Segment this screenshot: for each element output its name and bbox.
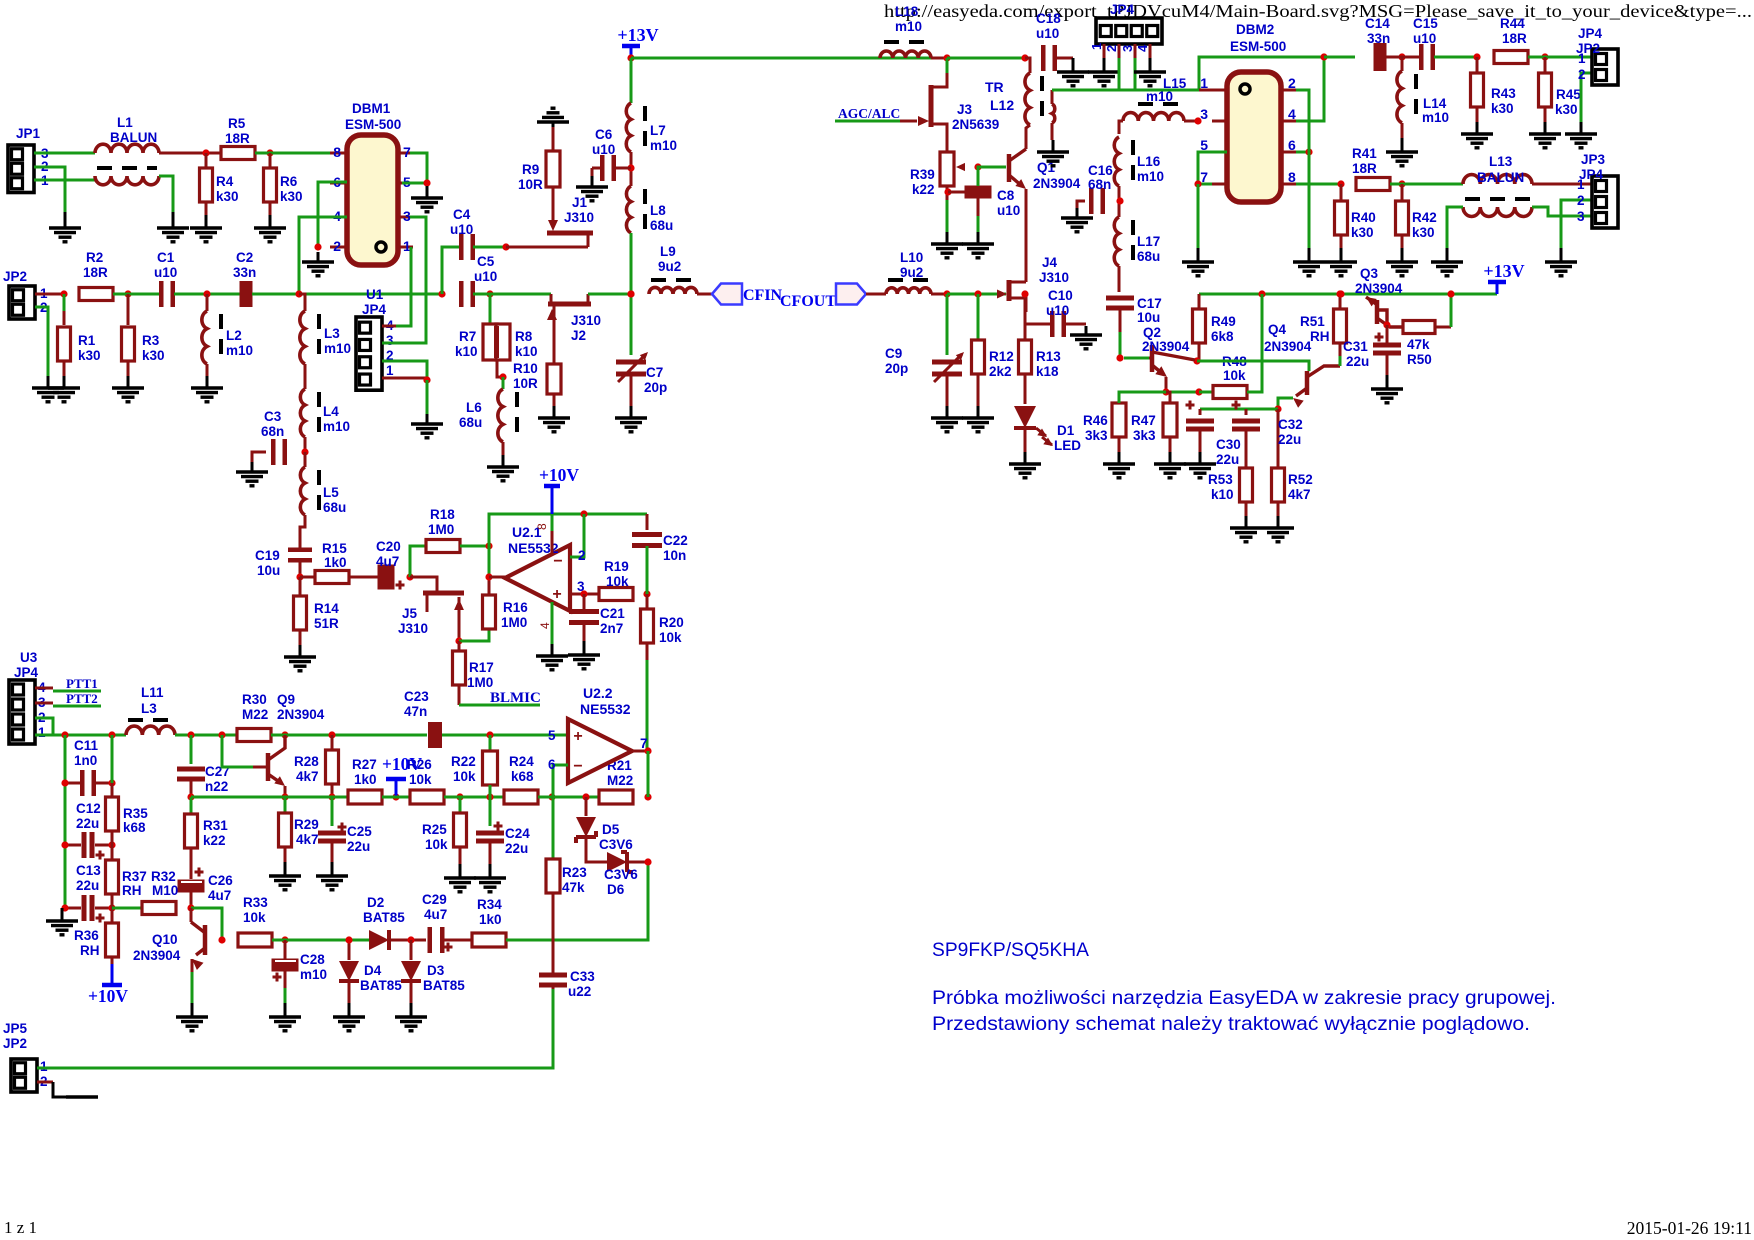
junction C8 left xyxy=(944,188,951,195)
resistor R52 xyxy=(1272,409,1313,516)
svg-text:22u: 22u xyxy=(76,816,99,831)
wire L15 to DBM2 pin3 xyxy=(1184,120,1198,123)
wire L5 to C19 xyxy=(300,515,305,548)
svg-text:J3: J3 xyxy=(957,102,973,117)
svg-text:k22: k22 xyxy=(203,833,226,848)
wire R39 bottom xyxy=(946,200,949,232)
wire C4 to J1 xyxy=(473,246,506,249)
svg-text:U2.2: U2.2 xyxy=(583,685,613,701)
junction C12 right xyxy=(108,841,115,848)
DBM2 pin stubs 3/4 xyxy=(1200,106,1296,122)
resistor R41 xyxy=(1352,146,1390,191)
svg-text:C16: C16 xyxy=(1088,163,1113,178)
svg-text:R5: R5 xyxy=(228,116,246,131)
title SP9FKP/SQ5KHA xyxy=(932,939,1089,961)
svg-text:BLMIC: BLMIC xyxy=(490,690,541,706)
U2.2 pin7 xyxy=(640,736,648,751)
svg-text:D5: D5 xyxy=(602,822,620,837)
svg-text:k30: k30 xyxy=(142,348,165,363)
wire R48 right up rail xyxy=(1247,294,1262,392)
svg-text:CFOUT: CFOUT xyxy=(780,293,836,310)
junction C18 xyxy=(1021,54,1028,61)
wire C10 right to ground xyxy=(1065,323,1086,326)
svg-text:1: 1 xyxy=(1089,43,1104,50)
ground C31 xyxy=(1371,375,1403,403)
svg-text:LED: LED xyxy=(1054,438,1081,453)
svg-text:2N3904: 2N3904 xyxy=(1355,281,1403,296)
junction R22 top xyxy=(486,731,493,738)
svg-text:22u: 22u xyxy=(1346,354,1369,369)
wire R32 link xyxy=(112,907,142,910)
svg-text:J310: J310 xyxy=(564,210,594,225)
inductor L11 L3 xyxy=(126,685,175,735)
JP3 pin2 xyxy=(1577,193,1585,208)
wire L7 to L8 xyxy=(630,152,633,186)
wire R8 bottom xyxy=(497,360,503,377)
resistor R42 xyxy=(1396,184,1437,248)
transistor Q1 2N3904 xyxy=(1009,149,1081,191)
svg-text:+13V: +13V xyxy=(617,25,658,45)
svg-text:68u: 68u xyxy=(459,415,482,430)
capacitor C17 xyxy=(1106,296,1162,326)
resistor R15 xyxy=(300,541,379,584)
capacitor C22 xyxy=(632,514,688,594)
resistor R40 xyxy=(1335,184,1376,248)
jfet J3 2N5639 xyxy=(918,73,999,139)
junction C4/J1 xyxy=(502,243,509,250)
wire R28 to R27 xyxy=(285,796,348,799)
svg-text:C14: C14 xyxy=(1365,16,1390,31)
svg-text:1: 1 xyxy=(38,725,46,740)
svg-text:DBM1: DBM1 xyxy=(352,101,391,116)
svg-text:R47: R47 xyxy=(1131,413,1156,428)
ground R47 xyxy=(1154,452,1186,478)
svg-text:R26: R26 xyxy=(407,757,432,772)
wire opamp pin3 xyxy=(570,593,600,596)
op-amp U2.1 NE5532 xyxy=(505,523,570,629)
svg-text:R19: R19 xyxy=(604,559,629,574)
svg-text:L7: L7 xyxy=(650,123,666,138)
wire J5 node to R16 bottom xyxy=(459,630,489,641)
resistor R9 xyxy=(518,127,560,222)
svg-text:C22: C22 xyxy=(663,533,688,548)
JP2r pin1 xyxy=(1578,51,1586,66)
ground C10 xyxy=(1070,326,1102,349)
resistor R47 xyxy=(1131,392,1177,452)
svg-text:u10: u10 xyxy=(1036,26,1059,41)
svg-text:33n: 33n xyxy=(1367,31,1390,46)
svg-text:C25: C25 xyxy=(347,824,372,839)
net label BLMIC xyxy=(459,690,541,706)
wire R5 right to DBM1 pin8 xyxy=(255,152,330,155)
svg-text:+: + xyxy=(573,728,582,745)
JP3 pin3 xyxy=(1577,209,1585,224)
JP2 pin 2 xyxy=(40,300,48,315)
svg-text:R6: R6 xyxy=(280,174,298,189)
svg-text:L10: L10 xyxy=(900,250,923,265)
svg-text:J310: J310 xyxy=(571,313,601,328)
resistor R22 xyxy=(451,735,498,797)
ground R25 xyxy=(444,864,476,892)
svg-text:R28: R28 xyxy=(294,754,319,769)
svg-text:C6: C6 xyxy=(595,127,613,142)
junction JP4 pin1 xyxy=(423,376,430,383)
ground C24 xyxy=(474,864,506,892)
junction DBM1 pin4 bottom xyxy=(295,290,302,297)
svg-text:R42: R42 xyxy=(1412,210,1437,225)
svg-text:C3: C3 xyxy=(264,409,282,424)
wire R49 top lead xyxy=(1198,294,1201,309)
wire C15 to R44 xyxy=(1434,56,1477,59)
inductor L14 xyxy=(1397,57,1449,138)
svg-text:1 z 1: 1 z 1 xyxy=(4,1218,37,1237)
inductor L5 xyxy=(300,452,346,515)
U2.2 pin6 xyxy=(548,757,556,772)
resistor R2 xyxy=(79,250,113,301)
ground R3 xyxy=(112,376,144,402)
svg-text:k10: k10 xyxy=(455,344,478,359)
power +10V y797 xyxy=(382,754,422,797)
svg-text:10k: 10k xyxy=(606,574,629,589)
svg-text:68u: 68u xyxy=(323,500,346,515)
svg-text:3: 3 xyxy=(1577,209,1585,224)
ground L13 xyxy=(1431,248,1463,276)
transistor Q9 2N3904 xyxy=(222,692,325,797)
svg-text:u10: u10 xyxy=(154,265,177,280)
wire Q1 emitter down xyxy=(1025,189,1028,282)
ground D4 xyxy=(333,1003,365,1031)
wire opamp pin8 into chip xyxy=(551,531,554,553)
junction Q3 left xyxy=(1337,290,1344,297)
svg-text:L3: L3 xyxy=(141,701,157,716)
svg-text:R1: R1 xyxy=(78,333,96,348)
wire DBM1 pin4 down to main line xyxy=(299,217,347,294)
svg-text:C32: C32 xyxy=(1278,417,1303,432)
transformer TR L12 xyxy=(985,58,1055,140)
svg-text:RH: RH xyxy=(80,943,100,958)
svg-text:NE5532: NE5532 xyxy=(580,701,631,717)
wire DBM2 pin6 node xyxy=(1296,151,1309,154)
svg-text:C26: C26 xyxy=(208,873,233,888)
zener D6 C3V6 xyxy=(604,852,648,897)
ground C13 rail xyxy=(46,908,78,935)
wire C17 green to base xyxy=(1119,332,1122,358)
resistor R34 xyxy=(472,897,506,947)
svg-text:Q3: Q3 xyxy=(1360,266,1379,281)
inductor L3 xyxy=(299,294,351,364)
svg-text:R17: R17 xyxy=(469,660,494,675)
svg-text:R20: R20 xyxy=(659,615,684,630)
svg-text:2N3904: 2N3904 xyxy=(1264,339,1312,354)
JP5 pin1 xyxy=(40,1059,48,1074)
junction L2 top xyxy=(203,290,210,297)
ground L2 xyxy=(191,376,223,402)
svg-text:AGC/ALC: AGC/ALC xyxy=(838,106,900,121)
wire output to apex xyxy=(489,576,505,579)
wire DBM2 pin1 stub long xyxy=(1199,89,1212,92)
svg-text:1: 1 xyxy=(386,363,394,378)
resistor R26 xyxy=(407,757,444,804)
resistor R1 xyxy=(58,294,101,376)
svg-text:R12: R12 xyxy=(989,349,1014,364)
inductor L9 xyxy=(649,244,697,294)
svg-text:J4: J4 xyxy=(1042,255,1058,270)
JP2r pin2 xyxy=(1578,67,1586,82)
ground C6 xyxy=(576,176,608,201)
svg-text:u10: u10 xyxy=(1413,31,1436,46)
resistor R36 xyxy=(74,908,119,964)
JP4 top pin stubs xyxy=(1089,43,1150,58)
svg-text:3: 3 xyxy=(403,208,411,224)
net label PTT2 xyxy=(35,691,101,706)
wire JP2 pin1 stub xyxy=(35,293,64,296)
svg-text:1: 1 xyxy=(1577,177,1585,192)
ground R45 xyxy=(1529,122,1561,148)
svg-text:4: 4 xyxy=(1135,44,1150,52)
ground R40 xyxy=(1325,248,1357,276)
svg-text:22u: 22u xyxy=(1278,432,1301,447)
svg-text:10k: 10k xyxy=(409,772,432,787)
ground R52 xyxy=(1262,516,1294,542)
svg-text:PTT2: PTT2 xyxy=(66,691,98,706)
ground R14 xyxy=(284,645,316,671)
svg-text:R7: R7 xyxy=(459,329,476,344)
resistor R33 xyxy=(238,895,272,947)
svg-text:3: 3 xyxy=(1200,106,1208,122)
wire C23 to U2.2 pin5 xyxy=(442,734,568,737)
svg-text:J310: J310 xyxy=(1039,270,1069,285)
svg-text:Przedstawiony schemat należy t: Przedstawiony schemat należy traktować w… xyxy=(932,1013,1530,1035)
ground JP3 pin2 xyxy=(1545,248,1577,276)
junction C16 node xyxy=(1116,197,1123,204)
svg-text:http://easyeda.com/export_tPJD: http://easyeda.com/export_tPJDVcuM4/Main… xyxy=(884,1,1752,21)
wire JP4 pin2 xyxy=(382,361,427,378)
resistor R31 xyxy=(185,797,229,862)
capacitor C6 xyxy=(592,127,631,181)
svg-text:R18: R18 xyxy=(430,507,455,522)
junction R22 bottom xyxy=(486,793,493,800)
svg-text:k30: k30 xyxy=(1351,225,1374,240)
svg-text:m10: m10 xyxy=(650,138,677,153)
svg-text:C5: C5 xyxy=(477,254,495,269)
ground R53 xyxy=(1230,516,1262,542)
net label AGC/ALC xyxy=(835,106,900,121)
wire R2 to C1 xyxy=(113,293,160,296)
svg-text:JP4: JP4 xyxy=(1578,26,1603,41)
wire L13 bottom to JP3 pin3 xyxy=(1532,207,1592,216)
wire R26 to R24 xyxy=(444,796,504,799)
ground L14 xyxy=(1386,138,1418,166)
svg-text:JP2: JP2 xyxy=(3,269,27,284)
wire R51 bottom to Q4 collector xyxy=(1339,356,1342,366)
svg-text:R41: R41 xyxy=(1352,146,1377,161)
ground DBM1 pin5 xyxy=(411,186,443,212)
svg-text:R37: R37 xyxy=(122,869,147,884)
svg-text:m10: m10 xyxy=(1146,89,1173,104)
junction R41 left xyxy=(1337,180,1344,187)
wire cap rail xyxy=(1200,408,1278,411)
DBM1 pin stubs row 4/3 xyxy=(330,208,413,224)
inductor L17 xyxy=(1114,217,1160,266)
svg-text:R23: R23 xyxy=(562,865,587,880)
svg-text:L17: L17 xyxy=(1137,234,1160,249)
svg-text:2N3904: 2N3904 xyxy=(1033,176,1081,191)
power +10V U2.1 xyxy=(539,465,579,514)
svg-text:U3: U3 xyxy=(20,650,38,665)
svg-text:m10: m10 xyxy=(226,343,253,358)
svg-text:R40: R40 xyxy=(1351,210,1376,225)
svg-text:4u7: 4u7 xyxy=(376,554,399,569)
ground C9 xyxy=(931,406,963,432)
wire rail to C18 xyxy=(947,57,1025,60)
svg-text:L4: L4 xyxy=(323,404,339,419)
wire JP1 pin3 to L1 xyxy=(34,152,95,155)
svg-text:68u: 68u xyxy=(650,218,673,233)
wire top rail to C14 xyxy=(1324,56,1355,59)
ground JP2 pin2 xyxy=(32,376,64,402)
capacitor C5 xyxy=(459,254,497,307)
note line 1 xyxy=(932,987,1556,1009)
wire DBM2 pin5 to pin7 xyxy=(1198,152,1227,184)
svg-text:4k7: 4k7 xyxy=(1288,487,1311,502)
U2.2 pin5 xyxy=(548,728,556,743)
svg-text:51R: 51R xyxy=(314,616,339,631)
capacitor C3 xyxy=(261,409,287,465)
wire R24 to R21 xyxy=(538,796,600,799)
resistor R50 xyxy=(1403,321,1451,368)
page header url text xyxy=(884,1,1752,21)
junction rail R51 xyxy=(1336,290,1343,297)
svg-text:DBM2: DBM2 xyxy=(1236,22,1274,37)
svg-text:R25: R25 xyxy=(422,822,447,837)
U3 pin3 xyxy=(38,695,46,710)
op-amp U2.2 NE5532 xyxy=(568,685,632,783)
svg-text:Q2: Q2 xyxy=(1143,325,1161,340)
wire C5 to J2 xyxy=(473,293,551,296)
resistor R5 xyxy=(221,116,255,160)
capacitor C28 xyxy=(272,940,328,1003)
svg-text:3: 3 xyxy=(1120,45,1135,52)
svg-text:10k: 10k xyxy=(453,769,476,784)
svg-text:C17: C17 xyxy=(1137,296,1162,311)
pin 3 label xyxy=(577,579,585,594)
svg-text:R4: R4 xyxy=(216,174,234,189)
svg-text:k30: k30 xyxy=(1491,101,1514,116)
diode D4 BAT85 xyxy=(339,940,402,1003)
resistor R45 xyxy=(1539,57,1582,122)
wire U3 pin1 main line xyxy=(35,734,126,737)
svg-text:C18: C18 xyxy=(1036,11,1061,26)
resistor R19 xyxy=(599,559,633,601)
power +10V R36 xyxy=(88,964,128,1006)
ground JP4 pin1 xyxy=(1088,58,1120,86)
junction Q2 emitter node xyxy=(1162,388,1169,395)
ground C18 xyxy=(1057,58,1089,86)
resistor R39 xyxy=(910,139,965,200)
wire C18 right to ground xyxy=(1056,57,1073,60)
ground L6 xyxy=(487,455,519,481)
svg-text:2N3904: 2N3904 xyxy=(1142,339,1190,354)
svg-text:C8: C8 xyxy=(997,188,1015,203)
svg-text:10u: 10u xyxy=(257,563,280,578)
wire opamp pin2 xyxy=(570,514,584,557)
junction R12 xyxy=(974,290,981,297)
wire DBM1 pin3 down xyxy=(410,217,426,294)
ground C30 xyxy=(1184,452,1216,478)
wire L13 bottom left xyxy=(1447,207,1463,248)
diode D1 LED xyxy=(1014,406,1081,453)
resistor R44 xyxy=(1494,16,1528,64)
U1 JP4 pin3 xyxy=(386,333,394,348)
svg-text:JP4: JP4 xyxy=(362,302,387,317)
svg-text:R34: R34 xyxy=(477,897,502,912)
svg-text:m10: m10 xyxy=(895,19,922,34)
junction C12 left xyxy=(61,841,68,848)
connector JP4 top xyxy=(1096,2,1162,44)
svg-text:2k2: 2k2 xyxy=(989,364,1012,379)
svg-text:Q9: Q9 xyxy=(277,692,295,707)
capacitor C32 xyxy=(1216,401,1260,468)
junction R48 left xyxy=(1195,388,1202,395)
svg-text:2N3904: 2N3904 xyxy=(277,707,325,722)
wire L18 to junction xyxy=(931,57,947,60)
ground R4 xyxy=(190,215,222,242)
svg-text:Q4: Q4 xyxy=(1268,322,1287,337)
ground C8 xyxy=(962,232,994,258)
ground DBM2 pin6 rail xyxy=(1293,248,1325,276)
wire R7R8 drop xyxy=(489,294,492,324)
svg-text:ESM-500: ESM-500 xyxy=(345,117,401,132)
DBM2 pin stubs 7/8 xyxy=(1200,169,1296,185)
svg-text:1M0: 1M0 xyxy=(501,615,527,630)
svg-text:C20: C20 xyxy=(376,539,401,554)
svg-text:6: 6 xyxy=(548,757,556,772)
svg-text:2: 2 xyxy=(578,548,586,563)
svg-text:J1: J1 xyxy=(572,195,588,210)
svg-text:C24: C24 xyxy=(505,826,530,841)
junction C14 right xyxy=(1398,53,1405,60)
svg-text:1n0: 1n0 xyxy=(74,753,97,768)
resistor R25 xyxy=(422,797,467,864)
ground R6 xyxy=(254,215,286,242)
junction R13 top xyxy=(1021,290,1028,297)
svg-text:R52: R52 xyxy=(1288,472,1313,487)
svg-text:47n: 47n xyxy=(404,704,427,719)
svg-text:R50: R50 xyxy=(1407,352,1432,367)
capacitor C20 polarized xyxy=(376,539,405,590)
wire DBM1 pin7 to pin5 xyxy=(402,153,427,183)
wire C9 to R12 node xyxy=(947,293,1006,296)
svg-text:68u: 68u xyxy=(1137,249,1160,264)
junction +10V y797 xyxy=(392,793,399,800)
svg-text:18R: 18R xyxy=(1502,31,1527,46)
wire L8 to J2 node xyxy=(630,233,633,294)
wire L13 top to JP3 pin1 xyxy=(1532,183,1592,186)
svg-text:20p: 20p xyxy=(644,380,667,395)
ground R43 xyxy=(1461,122,1493,148)
capacitor C8 xyxy=(965,186,1021,233)
capacitor C15 xyxy=(1413,16,1438,70)
svg-text:4k7: 4k7 xyxy=(296,769,319,784)
U3 pin1 xyxy=(38,725,46,740)
capacitor C10 xyxy=(1026,288,1073,337)
junction R21 right xyxy=(644,793,651,800)
resistor R32 xyxy=(142,869,178,915)
svg-text:m10: m10 xyxy=(1422,110,1449,125)
module DBM2 ESM-500 xyxy=(1227,22,1286,202)
resistor R7 xyxy=(455,324,497,360)
junction R2 right xyxy=(124,290,131,297)
